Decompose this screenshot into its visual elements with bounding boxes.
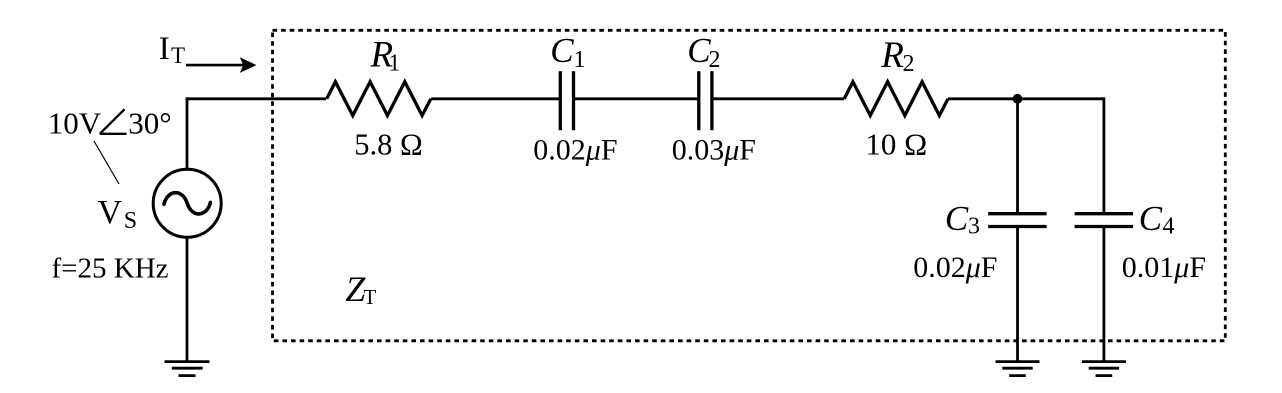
svg-text:C: C (550, 31, 574, 70)
svg-text:V: V (98, 194, 123, 231)
svg-text:0.02μF: 0.02μF (913, 251, 997, 284)
svg-text:C: C (945, 199, 969, 238)
svg-text:C: C (1139, 199, 1163, 238)
svg-text:0.03μF: 0.03μF (672, 134, 756, 167)
svg-text:2: 2 (903, 51, 915, 77)
svg-text:10V: 10V (48, 106, 102, 141)
svg-text:2: 2 (709, 47, 721, 73)
svg-text:3: 3 (968, 214, 980, 240)
svg-text:I: I (159, 31, 170, 67)
svg-text:T: T (171, 43, 185, 68)
svg-text:4: 4 (1163, 214, 1175, 240)
svg-text:30°: 30° (128, 106, 171, 141)
svg-text:1: 1 (574, 47, 586, 73)
svg-text:f=25 KHz: f=25 KHz (52, 253, 169, 285)
svg-text:R: R (880, 35, 904, 76)
svg-text:10 Ω: 10 Ω (865, 127, 927, 162)
svg-text:0.02μF: 0.02μF (533, 134, 617, 167)
svg-text:5.8 Ω: 5.8 Ω (354, 128, 422, 162)
svg-text:0.01μF: 0.01μF (1122, 251, 1206, 284)
svg-text:1: 1 (388, 50, 400, 76)
svg-text:S: S (124, 208, 137, 234)
svg-text:T: T (364, 285, 377, 309)
